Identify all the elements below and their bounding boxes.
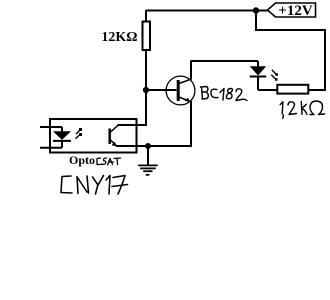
power flag +12V <box>268 3 316 19</box>
wire Q1 collector up <box>190 61 192 80</box>
label BC182 <box>201 87 248 101</box>
label 1,2kΩ <box>280 101 324 118</box>
wire opto collector to main vertical <box>118 124 148 126</box>
wire +12V branch from node <box>255 11 257 31</box>
resistor R2 body <box>277 85 308 94</box>
label 12KΩ <box>101 30 137 45</box>
transistor Q1 BC182 <box>166 76 195 105</box>
wire LED to resistor R2 <box>258 89 278 91</box>
opto LED <box>53 127 71 148</box>
opto phototransistor <box>110 125 118 146</box>
node junction on +12V rail <box>253 7 259 13</box>
wire resistor R1 top lead <box>145 11 147 23</box>
LED D1 emission arrows <box>271 70 278 81</box>
wire Q1 emitter down <box>190 101 192 147</box>
svg-text:12KΩ: 12KΩ <box>101 30 137 45</box>
wire resistor R2 to +12V riser <box>309 89 327 91</box>
svg-text:+12V: +12V <box>278 3 313 19</box>
svg-text:Opto: Opto <box>69 153 95 167</box>
node base junction <box>143 87 149 93</box>
wire to ground <box>147 146 149 165</box>
wire top rail <box>146 10 269 12</box>
node emitter ground junction <box>145 143 151 149</box>
opto LED emission arrows <box>76 128 83 139</box>
wire emitter rail <box>116 145 191 147</box>
optocoupler U1 box <box>50 119 137 153</box>
label Opto <box>69 153 95 167</box>
wire base of Q1 <box>146 89 177 91</box>
wire resistor R1 bottom to opto collector <box>145 50 147 126</box>
wire opto cathode pin <box>40 147 62 149</box>
wire +12V branch horizontal <box>255 29 326 31</box>
LED D1 <box>250 61 266 90</box>
label CNY17 <box>61 176 128 195</box>
wire collector rail to LED <box>191 60 258 62</box>
ground <box>138 165 158 174</box>
wire +12V riser <box>324 30 326 91</box>
resistor R1 body <box>143 22 151 51</box>
wire opto anode pin <box>40 126 62 128</box>
label CSAT <box>97 158 121 165</box>
